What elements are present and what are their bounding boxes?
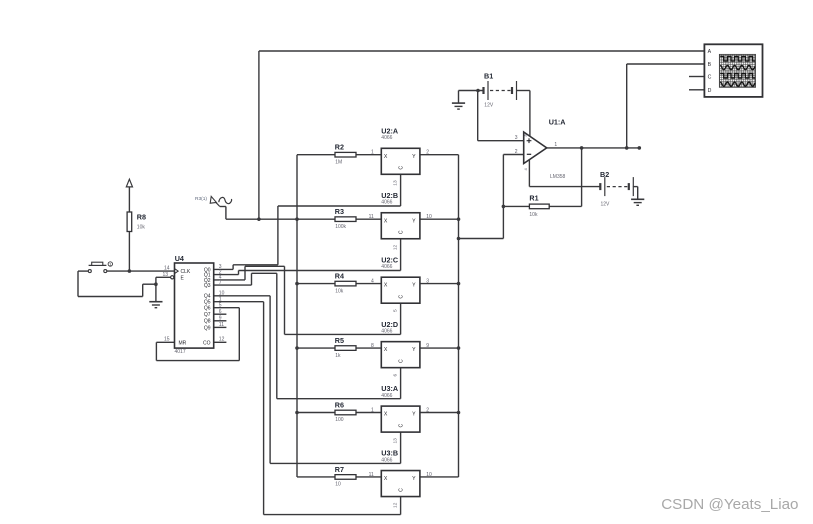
svg-text:X: X bbox=[384, 476, 388, 482]
svg-text:1M: 1M bbox=[335, 159, 342, 165]
svg-text:10k: 10k bbox=[529, 212, 538, 218]
svg-text:3: 3 bbox=[426, 279, 429, 285]
svg-text:Y: Y bbox=[412, 476, 416, 482]
svg-text:Y: Y bbox=[412, 218, 416, 224]
svg-text:10: 10 bbox=[335, 482, 341, 488]
svg-text:1: 1 bbox=[371, 150, 374, 156]
svg-text:R3(1): R3(1) bbox=[195, 196, 207, 202]
svg-text:4066: 4066 bbox=[381, 264, 392, 270]
svg-text:8: 8 bbox=[371, 343, 374, 349]
svg-text:15: 15 bbox=[164, 337, 170, 343]
svg-text:7: 7 bbox=[219, 280, 222, 286]
svg-text:R8: R8 bbox=[137, 213, 146, 222]
svg-text:12V: 12V bbox=[484, 102, 494, 108]
svg-text:100k: 100k bbox=[335, 224, 346, 230]
svg-text:10k: 10k bbox=[137, 224, 146, 230]
svg-text:Q8: Q8 bbox=[204, 319, 211, 325]
svg-text:4066: 4066 bbox=[381, 393, 392, 399]
svg-text:12: 12 bbox=[219, 337, 225, 343]
svg-text:12: 12 bbox=[392, 502, 398, 508]
svg-text:X: X bbox=[384, 347, 388, 353]
svg-text:6: 6 bbox=[392, 373, 398, 376]
svg-text:13: 13 bbox=[392, 438, 398, 444]
svg-text:9: 9 bbox=[426, 343, 429, 349]
svg-text:5: 5 bbox=[219, 303, 222, 309]
svg-text:U3:A: U3:A bbox=[381, 384, 398, 393]
svg-text:MR: MR bbox=[179, 340, 187, 346]
svg-text:CO: CO bbox=[203, 340, 211, 346]
svg-text:Y: Y bbox=[412, 154, 416, 160]
svg-text:Q9: Q9 bbox=[204, 325, 211, 331]
svg-text:X: X bbox=[384, 283, 388, 289]
svg-text:CSDN @Yeats_Liao: CSDN @Yeats_Liao bbox=[661, 496, 798, 513]
svg-text:A: A bbox=[708, 49, 712, 55]
svg-text:14: 14 bbox=[164, 266, 170, 272]
svg-text:U2:A: U2:A bbox=[381, 126, 398, 135]
svg-text:U4: U4 bbox=[175, 254, 184, 263]
svg-text:10: 10 bbox=[426, 472, 432, 478]
svg-text:X: X bbox=[384, 218, 388, 224]
svg-text:R6: R6 bbox=[335, 400, 344, 409]
svg-text:R2: R2 bbox=[335, 143, 344, 152]
svg-text:1k: 1k bbox=[335, 353, 341, 359]
svg-text:4066: 4066 bbox=[381, 457, 392, 463]
svg-text:B1: B1 bbox=[484, 72, 493, 81]
svg-text:Q6: Q6 bbox=[204, 306, 211, 312]
svg-text:C: C bbox=[399, 166, 405, 170]
svg-text:C: C bbox=[399, 488, 405, 492]
svg-text:1: 1 bbox=[371, 407, 374, 413]
svg-text:3: 3 bbox=[515, 135, 518, 141]
svg-text:4: 4 bbox=[371, 279, 374, 285]
svg-text:U2:B: U2:B bbox=[381, 191, 398, 200]
svg-text:10k: 10k bbox=[335, 288, 344, 294]
svg-text:C: C bbox=[708, 75, 712, 81]
svg-text:11: 11 bbox=[369, 472, 374, 478]
svg-text:10: 10 bbox=[426, 214, 432, 220]
svg-text:2: 2 bbox=[515, 149, 518, 155]
svg-text:R4: R4 bbox=[335, 271, 344, 280]
svg-text:11: 11 bbox=[369, 214, 374, 220]
svg-text:R3: R3 bbox=[335, 207, 344, 216]
svg-text:11: 11 bbox=[219, 322, 224, 328]
svg-text:LM358: LM358 bbox=[550, 174, 566, 180]
svg-text:U2:D: U2:D bbox=[381, 320, 398, 329]
svg-text:X: X bbox=[384, 412, 388, 418]
svg-text:C: C bbox=[399, 230, 405, 234]
svg-text:C: C bbox=[399, 423, 405, 427]
svg-text:4017: 4017 bbox=[175, 349, 186, 355]
svg-text:U3:B: U3:B bbox=[381, 449, 398, 458]
svg-text:B: B bbox=[708, 62, 712, 68]
svg-text:6: 6 bbox=[219, 309, 222, 315]
svg-text:C: C bbox=[399, 295, 405, 299]
svg-text:100: 100 bbox=[335, 417, 344, 423]
svg-text:4066: 4066 bbox=[381, 135, 392, 141]
svg-text:4066: 4066 bbox=[381, 328, 392, 334]
svg-text:9: 9 bbox=[219, 316, 222, 322]
svg-text:Y: Y bbox=[412, 347, 416, 353]
svg-text:2: 2 bbox=[426, 407, 429, 413]
svg-text:R7: R7 bbox=[335, 465, 344, 474]
svg-text:U2:C: U2:C bbox=[381, 255, 398, 264]
svg-text:CLK: CLK bbox=[181, 269, 191, 275]
svg-text:U1:A: U1:A bbox=[549, 118, 566, 127]
svg-text:1: 1 bbox=[554, 142, 557, 148]
svg-text:B2: B2 bbox=[600, 170, 609, 179]
svg-text:D: D bbox=[708, 88, 712, 94]
svg-text:13: 13 bbox=[392, 180, 398, 186]
svg-text:5: 5 bbox=[392, 309, 398, 312]
svg-text:12: 12 bbox=[392, 244, 398, 250]
svg-text:13: 13 bbox=[162, 272, 168, 278]
svg-text:X: X bbox=[384, 154, 388, 160]
svg-text:4066: 4066 bbox=[381, 200, 392, 206]
svg-text:R1: R1 bbox=[529, 194, 538, 203]
svg-text:12V: 12V bbox=[601, 202, 611, 208]
svg-text:Y: Y bbox=[412, 412, 416, 418]
svg-text:Y: Y bbox=[412, 283, 416, 289]
svg-text:R5: R5 bbox=[335, 336, 344, 345]
svg-text:C: C bbox=[399, 359, 405, 363]
svg-text:2: 2 bbox=[426, 150, 429, 156]
svg-text:Q7: Q7 bbox=[204, 312, 211, 318]
svg-text:Q3: Q3 bbox=[204, 283, 211, 289]
